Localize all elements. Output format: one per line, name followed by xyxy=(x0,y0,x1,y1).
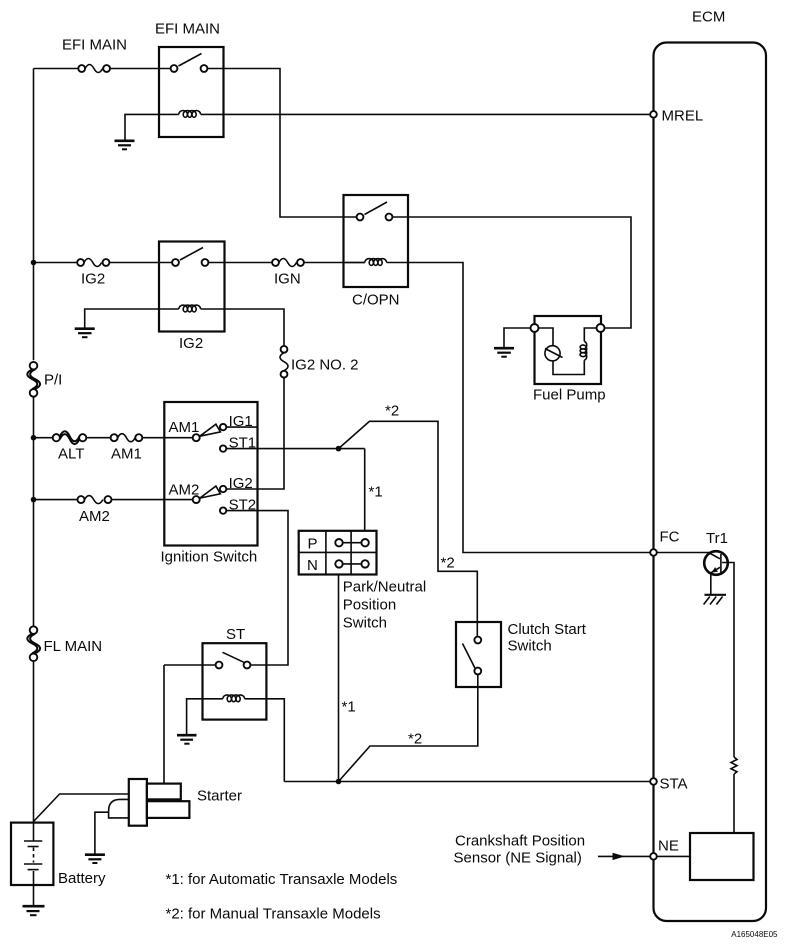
wire: ST1 to junction xyxy=(226,448,364,450)
fuse IG2 NO. 2 xyxy=(280,346,359,378)
wire: ST switch to starter xyxy=(164,665,216,784)
svg-text:Crankshaft Position: Crankshaft Position xyxy=(455,833,585,850)
wire: C/OPN switch to fuel pump xyxy=(392,217,631,328)
fuse IGN xyxy=(272,259,304,288)
svg-text:FL MAIN: FL MAIN xyxy=(44,638,103,655)
junction dot trunk/AM1 row xyxy=(31,435,37,441)
svg-text:ST: ST xyxy=(226,626,245,643)
svg-text:Switch: Switch xyxy=(508,638,552,655)
wire: trunk to IG2 fuse xyxy=(34,262,173,264)
wire: EFI MAIN coil to MREL xyxy=(224,113,651,115)
NE signal block (inside ECM) xyxy=(690,833,754,880)
wire: battery to starter xyxy=(34,794,129,822)
svg-text:STA: STA xyxy=(660,776,688,793)
wire: FC to Tr1 collector xyxy=(657,552,709,554)
fusible link FL MAIN xyxy=(27,626,102,661)
svg-text:A165048E05: A165048E05 xyxy=(731,930,778,939)
ground (battery) xyxy=(23,906,45,915)
wire: trunk to EFI MAIN fuse (top row) xyxy=(34,68,172,70)
svg-text:IG2: IG2 xyxy=(179,335,203,352)
ground (EFI MAIN relay coil) xyxy=(115,141,135,150)
svg-text:IG2 NO. 2: IG2 NO. 2 xyxy=(291,357,359,374)
ECM box xyxy=(654,9,767,922)
wire: IG2 coil to ground xyxy=(85,309,159,328)
wire STA (to ECM) xyxy=(284,781,650,783)
ground (IG2 relay coil) xyxy=(75,329,95,338)
svg-text:AM1: AM1 xyxy=(169,419,200,436)
wire: EFI MAIN coil to ground xyxy=(125,114,159,139)
wire: starter to ground xyxy=(95,812,109,853)
junction dot trunk/IG2 row xyxy=(31,260,37,266)
wire: IG2 switch to IGN fuse xyxy=(208,262,364,264)
fuse AM2 xyxy=(78,496,112,525)
resistor (Tr1 base) xyxy=(731,757,737,774)
wire: IG2 terminal to IG2 NO.2 fuse xyxy=(226,378,284,489)
wire: Tr1 base to resistor xyxy=(722,563,734,758)
junction dot STA/*1/*2 xyxy=(336,779,342,785)
svg-text:Starter: Starter xyxy=(197,787,242,804)
junction dot ST1/*1/*2 xyxy=(336,446,342,452)
battery xyxy=(11,823,106,905)
svg-text:*2: *2 xyxy=(441,555,455,572)
ground (fuel pump) xyxy=(494,348,514,357)
svg-text:AM1: AM1 xyxy=(111,446,142,463)
svg-text:*2: *2 xyxy=(408,731,422,748)
svg-text:Fuel Pump: Fuel Pump xyxy=(533,387,606,404)
svg-text:*2: *2 xyxy=(385,403,399,420)
fusible link ALT xyxy=(53,431,87,462)
relay ST xyxy=(203,626,267,720)
svg-text:ALT: ALT xyxy=(58,446,84,463)
svg-text:AM2: AM2 xyxy=(79,508,110,525)
svg-text:ECM: ECM xyxy=(692,9,725,26)
svg-text:Ignition Switch: Ignition Switch xyxy=(161,549,258,566)
svg-text:Clutch Start: Clutch Start xyxy=(508,621,587,638)
clutch start switch xyxy=(456,621,587,687)
svg-text:P/I: P/I xyxy=(44,372,62,389)
wire: battery trunk (left vertical) xyxy=(33,69,35,823)
node STA xyxy=(650,776,687,793)
svg-text:NE: NE xyxy=(658,837,679,854)
wire: trunk to AM2 fuse xyxy=(34,499,193,501)
fuse EFI MAIN xyxy=(62,37,127,73)
fuel pump xyxy=(531,316,606,404)
transistor Tr1 xyxy=(704,530,728,594)
svg-text:C/OPN: C/OPN xyxy=(352,292,400,309)
wire *2 lower (clutch start switch to STA junction) xyxy=(339,674,478,781)
node NE xyxy=(650,837,679,859)
relay IG2 xyxy=(159,242,225,353)
relay EFI MAIN xyxy=(155,21,224,138)
wire: C/OPN coil to FC xyxy=(408,263,650,553)
node FC xyxy=(650,529,679,556)
chassis ground (Tr1 emitter) xyxy=(704,595,726,605)
park/neutral position switch xyxy=(299,531,426,632)
svg-text:FC: FC xyxy=(660,529,680,546)
ground (ST relay coil) xyxy=(177,735,197,744)
fuse AM1 xyxy=(111,434,143,463)
svg-text:EFI MAIN: EFI MAIN xyxy=(155,21,220,38)
svg-text:MREL: MREL xyxy=(662,108,704,125)
ignition switch xyxy=(161,402,258,566)
wire *1 (junction to park/neutral switch) xyxy=(365,449,383,531)
wire: trunk to ALT xyxy=(34,437,193,439)
wire: ST coil to STA wire xyxy=(266,699,284,782)
ground (starter) xyxy=(85,855,105,863)
wire: ST coil to ground xyxy=(187,699,203,734)
svg-text:Switch: Switch xyxy=(343,615,387,632)
svg-text:IG2: IG2 xyxy=(81,271,105,288)
svg-text:N: N xyxy=(307,557,318,574)
wire: EFI MAIN switch output to C/OPN switch xyxy=(207,69,356,218)
svg-text:*1: for Automatic Transaxle Mo: *1: for Automatic Transaxle Models xyxy=(166,871,398,888)
wire *2 upper (junction to clutch start switch) xyxy=(339,403,478,637)
svg-text:IGN: IGN xyxy=(274,271,301,288)
svg-text:EFI MAIN: EFI MAIN xyxy=(62,37,127,54)
node MREL xyxy=(650,108,703,125)
svg-text:Sensor (NE Signal): Sensor (NE Signal) xyxy=(454,850,582,867)
junction dot trunk/AM2 row xyxy=(31,497,37,503)
fusible link P/I xyxy=(27,362,62,397)
svg-text:*2: for Manual Transaxle Model: *2: for Manual Transaxle Models xyxy=(166,906,381,923)
wire: fuel pump to ground xyxy=(504,328,531,347)
svg-text:Battery: Battery xyxy=(58,870,106,887)
svg-text:P: P xyxy=(308,536,318,553)
wire *1 (park/neutral switch to STA wire) xyxy=(339,575,356,782)
wire: IG2 relay coil to fuse IG2 NO.2 xyxy=(225,309,285,346)
wire: ST2 to ST relay xyxy=(226,511,288,665)
wire: resistor to NE box xyxy=(733,774,735,833)
wire: NE node to NE block xyxy=(657,855,690,857)
svg-text:*1: *1 xyxy=(369,484,383,501)
svg-text:Position: Position xyxy=(343,597,396,614)
crankshaft position sensor label and arrow xyxy=(454,833,651,867)
fuse IG2 xyxy=(77,259,109,288)
starter xyxy=(109,779,242,826)
relay C/OPN xyxy=(344,195,409,309)
svg-text:Park/Neutral: Park/Neutral xyxy=(343,579,426,596)
svg-text:Tr1: Tr1 xyxy=(706,530,728,547)
svg-text:*1: *1 xyxy=(342,699,356,716)
